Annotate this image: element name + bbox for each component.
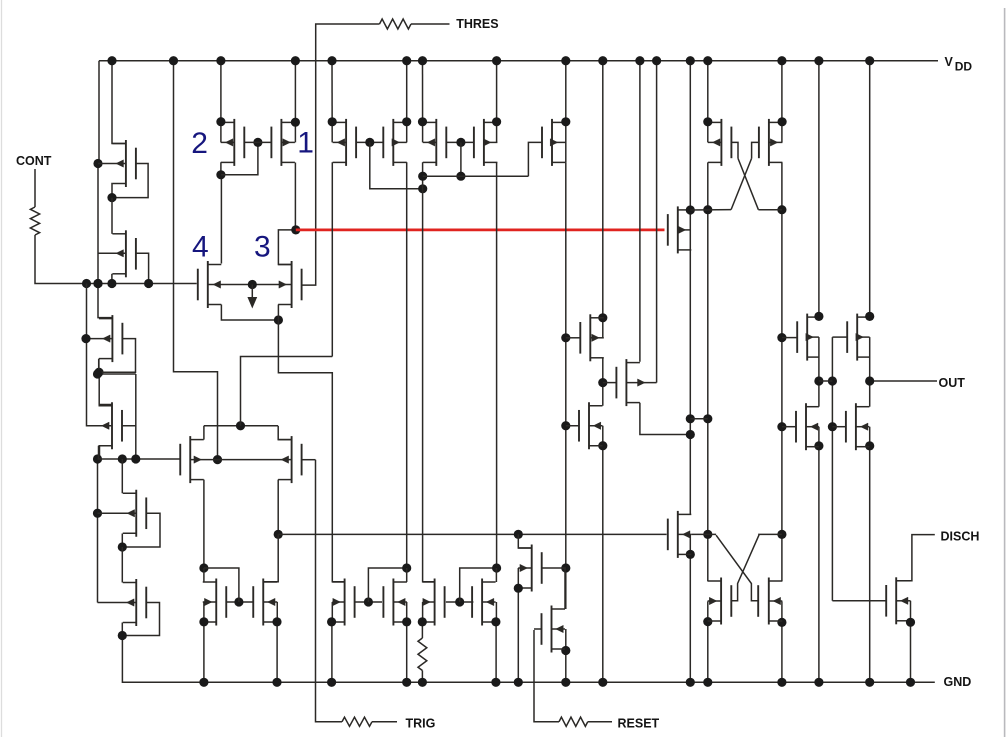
wire Q20 drain riser — [639, 61, 641, 362]
wire Q15Q16 gate leads — [446, 141, 474, 143]
junction dot body center — [248, 280, 257, 289]
junction dot rail 422 — [418, 56, 427, 65]
wire Q35 gate riser — [368, 568, 406, 602]
transistor Q9 (4) — [207, 261, 209, 308]
junction dot rail 782 — [777, 56, 786, 65]
wire x278 lower — [263, 534, 278, 581]
Q3 body arrow — [103, 335, 111, 342]
junction dot rail 819 — [814, 56, 823, 65]
junction dot Q23 drain dot — [778, 117, 787, 126]
wire x690 column a — [689, 61, 691, 515]
transistor Q11 (2) — [233, 119, 235, 166]
transistor Q14 — [392, 119, 394, 166]
wire Q39 tail — [910, 621, 912, 682]
wire Q21 body lead — [678, 229, 691, 231]
junction dot Q37 gate node — [455, 597, 464, 606]
junction dot Q7 source node — [199, 563, 208, 572]
wire node to Q2 drain — [111, 198, 113, 234]
junction dot rail 870 — [865, 56, 874, 65]
junction dot ladder-1 — [93, 159, 102, 168]
wire Q3 source down — [98, 359, 100, 372]
junction dot Q37 source dot — [418, 617, 427, 626]
transistor Q30 out N-R — [855, 403, 857, 450]
junction dot x422 gnd — [418, 678, 427, 687]
wire ladder column mid — [99, 359, 112, 405]
Q20 body arrow — [638, 379, 646, 386]
junction dot Q35 source dot — [327, 617, 336, 626]
wire Q10 source down — [277, 305, 279, 321]
transistor Q33 — [215, 579, 217, 626]
junction dot rail 332 — [327, 56, 336, 65]
wire CONT lead — [34, 169, 36, 207]
junction dot pair body node — [213, 455, 222, 464]
wire Q24 body ext — [691, 533, 716, 535]
wire Q37 mid — [422, 602, 424, 622]
wire Q7Q8 body lead — [190, 459, 291, 461]
junction dot Q14 drain dot — [402, 117, 411, 126]
junction dot ladder y374 node — [93, 369, 102, 378]
wire lowerX splay R — [731, 534, 782, 600]
junction dot x566 n2 — [561, 421, 570, 430]
wire Q6 source down — [121, 623, 123, 636]
transistor Q23 latch-R — [768, 119, 770, 166]
wire x782 column b — [781, 162, 783, 581]
transistor Q16 — [483, 119, 485, 166]
wire Q15 source down — [423, 162, 435, 581]
junction dot x518 gate node — [514, 530, 523, 539]
junction dot Q6 node — [118, 631, 127, 640]
junction dot x566 n3 — [561, 563, 570, 572]
wire Q18 gate lead — [566, 337, 581, 339]
wire link 210 r — [758, 209, 782, 211]
junction dot rail netA — [169, 56, 178, 65]
junction dot n568 a — [402, 563, 411, 572]
wire Q2 body lead — [98, 252, 126, 254]
junction dot CONT node b — [93, 279, 102, 288]
junction dot x708 n2 — [703, 414, 712, 423]
junction dot n568 b — [492, 563, 501, 572]
junction dot x690 n2 — [686, 414, 695, 423]
transistor Q38 — [481, 579, 483, 626]
wire tie wire 176 — [423, 175, 529, 177]
transistor Q39 discharge — [895, 577, 897, 624]
Q8 body arrow — [281, 456, 289, 463]
svg-text:3: 3 — [254, 231, 271, 264]
junction dot x332 gnd — [327, 678, 336, 687]
wire Q35 gate link — [355, 601, 382, 603]
red latch set wire — [296, 229, 665, 232]
transistor Q19 — [588, 402, 590, 449]
junction dot x819 n3 — [814, 441, 823, 450]
junction dot ladder-2 — [93, 279, 102, 288]
wire Q36 mid — [406, 602, 408, 622]
junction dot rail 406 — [402, 56, 411, 65]
wire Q16 source down — [496, 162, 498, 568]
wire x566 column upper — [565, 162, 567, 609]
page border left — [1, 0, 3, 737]
bulk arrow down — [247, 297, 257, 309]
wire RESET riser — [534, 630, 559, 722]
transistor Q15 — [435, 119, 437, 166]
Q7 body arrow — [194, 456, 202, 463]
transistor Q17 — [551, 119, 553, 166]
junction dot x870 gnd — [865, 678, 874, 687]
transistor Q22 latch-L — [720, 119, 722, 166]
junction dot x870 n2 — [865, 376, 874, 385]
transistor Q31 reset-a — [531, 545, 533, 592]
junction dot x602 gnd — [598, 678, 607, 687]
wire lowerX splay L — [716, 535, 758, 601]
wire bias row 459 — [98, 458, 181, 460]
wire left rail drop — [98, 61, 100, 164]
wire Q20 gate lead — [603, 382, 617, 384]
wire x690 column b — [689, 534, 691, 682]
junction dot x819 n2 — [814, 376, 823, 385]
wire GND rail — [122, 636, 934, 683]
wire Q14 drain drop — [406, 61, 408, 143]
transistor Q27 out P-L — [806, 314, 808, 361]
wire Q33 mid — [203, 602, 205, 622]
wire THRES to comparator — [302, 24, 380, 285]
wire netA riser — [241, 357, 333, 426]
wire Q14 source down — [406, 162, 408, 568]
junction dot Q33 source dot — [199, 617, 208, 626]
transistor Q37 — [434, 579, 436, 626]
wire x870 column a — [869, 61, 871, 317]
wire Q38 tail — [495, 622, 497, 682]
Q9 body arrow — [213, 281, 221, 288]
wire Q17 gate chain — [528, 142, 542, 176]
wire Q3 body lead — [86, 338, 112, 340]
junction dot rail 602 — [598, 56, 607, 65]
wire Q13 source down — [331, 162, 333, 356]
junction dot x870 n3 — [865, 441, 874, 450]
wire Q10 drain chain — [278, 230, 295, 265]
transistor Q10 (3) — [291, 261, 293, 308]
transistor Q5 bias — [135, 490, 137, 537]
wire Q39 gate lead — [832, 600, 886, 602]
svg-text:RESET: RESET — [618, 717, 660, 731]
wire Q38 drain riser — [495, 568, 497, 582]
junction dot Q17 drain dot — [561, 117, 570, 126]
wire Q33 drain riser — [203, 568, 205, 582]
wire Q4 source down — [98, 446, 100, 459]
svg-text:THRES: THRES — [456, 17, 498, 31]
wire ladder column low — [99, 446, 101, 459]
junction dot Q31 source dot — [514, 584, 523, 593]
transistor Q21 set — [677, 206, 679, 253]
transistor Q26 latch2-R — [768, 578, 770, 625]
junction dot x819 n1 — [814, 312, 823, 321]
junction dot x708 n1 — [703, 205, 712, 214]
page border right — [1004, 8, 1006, 737]
wire Q5 gate chain — [122, 513, 160, 547]
wire latch gate wire — [278, 533, 666, 535]
wire TRIG riser — [316, 460, 343, 722]
wire Q37 gate riser — [460, 568, 497, 602]
wire Q19 gate lead — [566, 425, 579, 427]
junction dot x708 n3 — [703, 530, 712, 539]
wire Q36 drain riser — [406, 568, 408, 582]
wire pairA gate drop — [370, 142, 423, 188]
transistor Q2 bias mirror — [125, 230, 127, 277]
junction dot x690 n3 — [686, 430, 695, 439]
junction dot x602 n1 — [598, 313, 607, 322]
wire Q29 gate lead — [782, 426, 796, 428]
wire x708 column c — [707, 601, 709, 682]
wire x708 column b — [707, 162, 709, 581]
wire Q30 gate lead — [832, 426, 846, 428]
transistor Q13 — [345, 119, 347, 166]
junction dot Q1 gate-source node — [107, 193, 116, 202]
wire x566 column lower — [565, 629, 567, 682]
svg-text:GND: GND — [944, 675, 972, 689]
transistor Q8 trig-comp right — [291, 436, 293, 483]
resistor R-CONT — [30, 207, 39, 235]
upper cross diagonal 1 — [738, 158, 758, 209]
junction dot x690 n1 — [686, 205, 695, 214]
junction dot Q11 source node — [216, 170, 225, 179]
junction dot x782 n5 — [777, 618, 786, 627]
wire pair gate tie — [221, 142, 258, 174]
junction dot x566 n4 — [561, 646, 570, 655]
junction dot x518 gnd — [514, 678, 523, 687]
junction dot x204 gnd — [199, 678, 208, 687]
junction dot node3 red — [291, 225, 300, 234]
wire Q35 tail — [331, 622, 333, 682]
wire x602 column a — [602, 61, 604, 338]
junction dot rail 708 — [703, 56, 712, 65]
junction dot ladder-3 — [94, 368, 103, 377]
wire x832 column — [831, 337, 833, 601]
wire Q16 drain drop — [496, 61, 498, 143]
junction dot Q36 source dot — [402, 617, 411, 626]
wire Q6 drain riser — [121, 547, 123, 583]
wire Q3 gate chain — [100, 339, 136, 373]
Q4 body arrow — [102, 422, 110, 429]
wire Q7 source down — [203, 480, 205, 568]
junction dot rail 295 — [291, 56, 300, 65]
wire x870 column b — [869, 337, 871, 407]
junction dot x277 gnd — [272, 678, 281, 687]
wire THRES lead — [411, 23, 450, 25]
wire Q1 source down — [111, 184, 113, 198]
wire x819 column c — [818, 427, 820, 683]
junction dot pairB gate node — [456, 138, 465, 147]
wire Q32 gate lead — [534, 628, 542, 630]
svg-text:DISCH: DISCH — [941, 530, 980, 544]
wire Q34 tail — [276, 622, 278, 682]
wire Q27 gate lead — [782, 337, 797, 339]
wire x708 column a — [707, 61, 709, 143]
transistor Q6 bias — [135, 579, 137, 626]
svg-text:1: 1 — [297, 127, 314, 160]
svg-text:TRIG: TRIG — [406, 717, 436, 731]
wire Q15 drain drop — [422, 61, 424, 143]
svg-text:CONT: CONT — [16, 154, 52, 168]
junction dot pairA gate node — [365, 138, 374, 147]
junction dot x832 n2 — [828, 422, 837, 431]
transistor Q32 reset-b — [551, 606, 553, 653]
wire Q13 drain drop — [331, 61, 333, 143]
junction dot Q33 gate node — [234, 597, 243, 606]
junction dot rail 640 — [635, 56, 644, 65]
wire Q28 gate lead — [832, 336, 847, 338]
wire Q34 mid — [276, 602, 278, 622]
junction dot x708 n4 — [703, 617, 712, 626]
wire Q12 source down — [294, 163, 296, 230]
junction dot x782 n3 — [777, 422, 786, 431]
wire Q1 body lead — [98, 163, 126, 165]
wire Q35 mid — [331, 602, 333, 622]
junction dot Q38 source dot — [491, 617, 500, 626]
junction dot rail 220 — [216, 56, 225, 65]
junction dot n459-b — [131, 454, 140, 463]
junction dot x496 gnd — [491, 678, 500, 687]
junction dot Q15 drain dot — [418, 117, 427, 126]
wire netA — [174, 61, 218, 460]
transistor Q3 bias — [111, 315, 113, 362]
junction dot x690 gnd — [686, 678, 695, 687]
junction dot rail 656 — [652, 56, 661, 65]
junction dot Q39 source dot — [906, 618, 915, 627]
wire Q8 drain jog — [278, 426, 291, 440]
wire Q38 mid — [495, 602, 497, 622]
junction dot Q15 tie1 — [418, 172, 427, 181]
wire Q20 source down — [640, 403, 690, 435]
junction dot Q13 drain dot — [328, 117, 337, 126]
wire Q9 source down — [221, 305, 278, 321]
junction dot x782 n1 — [777, 205, 786, 214]
junction dot CONT node c — [107, 279, 116, 288]
wire VDD rail — [99, 60, 938, 62]
wire Q11 source down — [220, 162, 222, 175]
junction dot x566 gnd — [561, 678, 570, 687]
wire x819 column b — [818, 337, 820, 407]
wire pairB gate drop — [460, 142, 462, 176]
Q10 body arrow — [279, 281, 287, 288]
transistor Q20 — [625, 359, 627, 406]
wire Q3 body rail — [87, 284, 113, 426]
junction dot rail 566 — [561, 56, 570, 65]
wire RESET lead — [588, 721, 612, 723]
wire x782 column c — [781, 601, 783, 682]
wire Q6 body lead — [98, 602, 137, 604]
wire link 418 — [690, 418, 708, 420]
wire CONT to node — [35, 235, 197, 284]
wire Q2 source down — [111, 274, 113, 284]
wire Q37 tail lower — [421, 671, 423, 683]
transistor Q7 trig-comp left — [189, 436, 191, 483]
wire Q4 gate riser — [135, 374, 137, 459]
wire Q5 drain riser — [121, 459, 123, 493]
wire Q2 gate chain — [136, 253, 149, 283]
junction dot netA node — [236, 421, 245, 430]
wire Q9 drain riser — [220, 175, 222, 264]
wire Q11 drain drop — [220, 61, 222, 143]
transistor Q35 — [344, 579, 346, 626]
Q2 body arrow — [116, 250, 124, 257]
junction dot Q3 body node — [81, 334, 90, 343]
wire x819 column a — [818, 61, 820, 317]
transistor Q18 — [589, 314, 591, 361]
wire ladder column lower — [97, 459, 99, 603]
wire Q17 drain drop — [565, 61, 567, 163]
wire link 210 — [690, 209, 731, 211]
wire Q7 drain riser — [203, 426, 205, 440]
junction dot Q5 node — [118, 542, 127, 551]
wire Q4 gate chain — [122, 425, 136, 427]
junction dot x406 gnd — [402, 678, 411, 687]
wire Q36 tail — [406, 622, 408, 682]
wire Q31 drain feed — [518, 534, 531, 548]
wire Q20 body lead — [626, 382, 656, 384]
junction dot pair12 gate node — [253, 138, 262, 147]
junction dot Q22 drain dot — [703, 117, 712, 126]
junction dot x602 n2 — [598, 378, 607, 387]
wire OUT lead — [870, 380, 937, 382]
junction dot x870 n1 — [865, 312, 874, 321]
junction dot disch gate node — [274, 530, 283, 539]
junction dot pairA tie — [418, 184, 427, 193]
wire TRIG lead — [372, 721, 397, 723]
junction dot Q35 gate node — [364, 597, 373, 606]
wire x870 column c — [869, 427, 871, 683]
Q21 body arrow — [678, 226, 686, 233]
junction dot rail 112 — [107, 56, 116, 65]
junction dot Q34 source dot — [272, 617, 281, 626]
wire Q8 gate chain — [302, 459, 316, 461]
junction dot Q16 drain dot — [492, 117, 501, 126]
wire Q33 gate riser — [204, 568, 239, 602]
junction dot rail 690 — [686, 56, 695, 65]
wire ladder column upper — [98, 164, 112, 318]
junction dot ladder-4 — [93, 454, 102, 463]
wire Q33 gate link — [226, 601, 253, 603]
junction dot pairB tie — [456, 172, 465, 181]
svg-text:OUT: OUT — [939, 376, 966, 390]
junction dot Q12 drain dot — [291, 118, 300, 127]
wire Q37 gate link — [446, 601, 474, 603]
junction dot x566 n1 — [561, 333, 570, 342]
wire Q6 gate chain — [122, 603, 159, 636]
wire ladder link y374 — [98, 373, 136, 375]
junction dot x708 gnd — [703, 678, 712, 687]
junction dot x910 gnd — [906, 678, 915, 687]
Q1 body arrow — [116, 160, 124, 167]
junction dot Q11 drain dot — [216, 117, 225, 126]
wire Q20 body riser — [656, 61, 658, 383]
wire DISCH lead — [896, 535, 935, 581]
wire x602 column c — [602, 426, 604, 683]
wire Q12 drain drop — [294, 61, 296, 143]
resistor R-tail — [418, 638, 427, 671]
junction dot x782 gnd — [777, 678, 786, 687]
transistor Q36 — [392, 579, 394, 626]
transistor Q34 — [262, 579, 264, 626]
transistor Q24 reset-latch — [677, 511, 679, 558]
resistor R-RESET — [559, 717, 588, 726]
junction dot x602 n3 — [598, 441, 607, 450]
svg-text:2: 2 — [191, 127, 208, 160]
Q5 body arrow — [127, 510, 135, 517]
junction dot x782 n4 — [777, 530, 786, 539]
wire Q8 source down — [277, 480, 279, 535]
transistor Q4 bias — [111, 402, 113, 449]
wire upperX gate stub R — [752, 142, 759, 158]
wire Q13Q14 gate leads — [356, 141, 383, 143]
junction dot x832 n1 — [828, 376, 837, 385]
